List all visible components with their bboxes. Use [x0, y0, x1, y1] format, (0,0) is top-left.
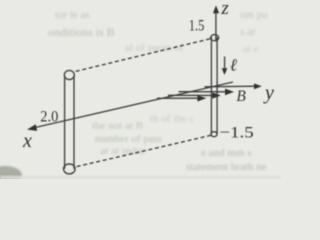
svg-text:1.5: 1.5: [189, 18, 205, 35]
current arrowhead: [222, 68, 228, 75]
svg-text:B: B: [236, 88, 246, 105]
x-axis line: [34, 82, 234, 128]
svg-text:onditions is B: onditions is B: [48, 25, 115, 39]
right rod right edge: [216, 37, 218, 134]
bleed-through text layer: [48, 9, 268, 173]
left rod right edge: [73, 76, 75, 169]
svg-text:2.0: 2.0: [40, 108, 58, 125]
left rod left edge: [64, 76, 66, 169]
svg-text:statement brath ne: statement brath ne: [186, 161, 267, 173]
svg-text:z: z: [220, 0, 229, 19]
B field arrow 3 shaft: [157, 97, 200, 99]
y-axis arrowhead: [254, 83, 262, 89]
svg-text:al e: al e: [243, 43, 259, 55]
current arrow shaft: [224, 57, 226, 70]
B field arrow 1 shaft: [179, 91, 228, 93]
svg-text:om pu: om pu: [240, 9, 268, 21]
svg-text:th of the c: th of the c: [150, 113, 194, 125]
B field arrow 2 shaft: [168, 94, 214, 96]
left rod bottom ellipse: [64, 164, 76, 174]
right rod left edge: [210, 37, 212, 134]
z-axis line: [215, 10, 217, 41]
right rod bottom ellipse: [211, 132, 217, 137]
bottom-left scan smudge: [0, 166, 22, 184]
svg-text:y: y: [263, 82, 274, 104]
left rod top ellipse: [64, 70, 74, 79]
x-axis arrowhead: [27, 124, 37, 131]
right rod top ellipse: [211, 35, 219, 41]
y-axis line: [205, 85, 256, 88]
svg-text:e and mm s: e and mm s: [201, 147, 251, 159]
svg-text:the not at B: the not at B: [92, 120, 143, 132]
svg-text:tor le as: tor le as: [55, 9, 90, 21]
paper background: [0, 0, 281, 179]
B arrow 3 head: [197, 95, 206, 102]
B arrow 1 head: [225, 89, 234, 96]
svg-text:x: x: [22, 130, 32, 152]
svg-text:ℓ: ℓ: [230, 55, 237, 74]
bottom scan band: [0, 176, 281, 179]
svg-text:s ar: s ar: [240, 26, 256, 38]
dashed loop edge top: [76, 39, 211, 72]
B arrow 2 head: [212, 92, 221, 99]
dashed loop edge bottom: [77, 135, 211, 166]
z-axis arrowhead: [213, 5, 219, 13]
svg-text:−1.5: −1.5: [219, 125, 254, 142]
svg-text:number of pass: number of pass: [95, 133, 162, 145]
